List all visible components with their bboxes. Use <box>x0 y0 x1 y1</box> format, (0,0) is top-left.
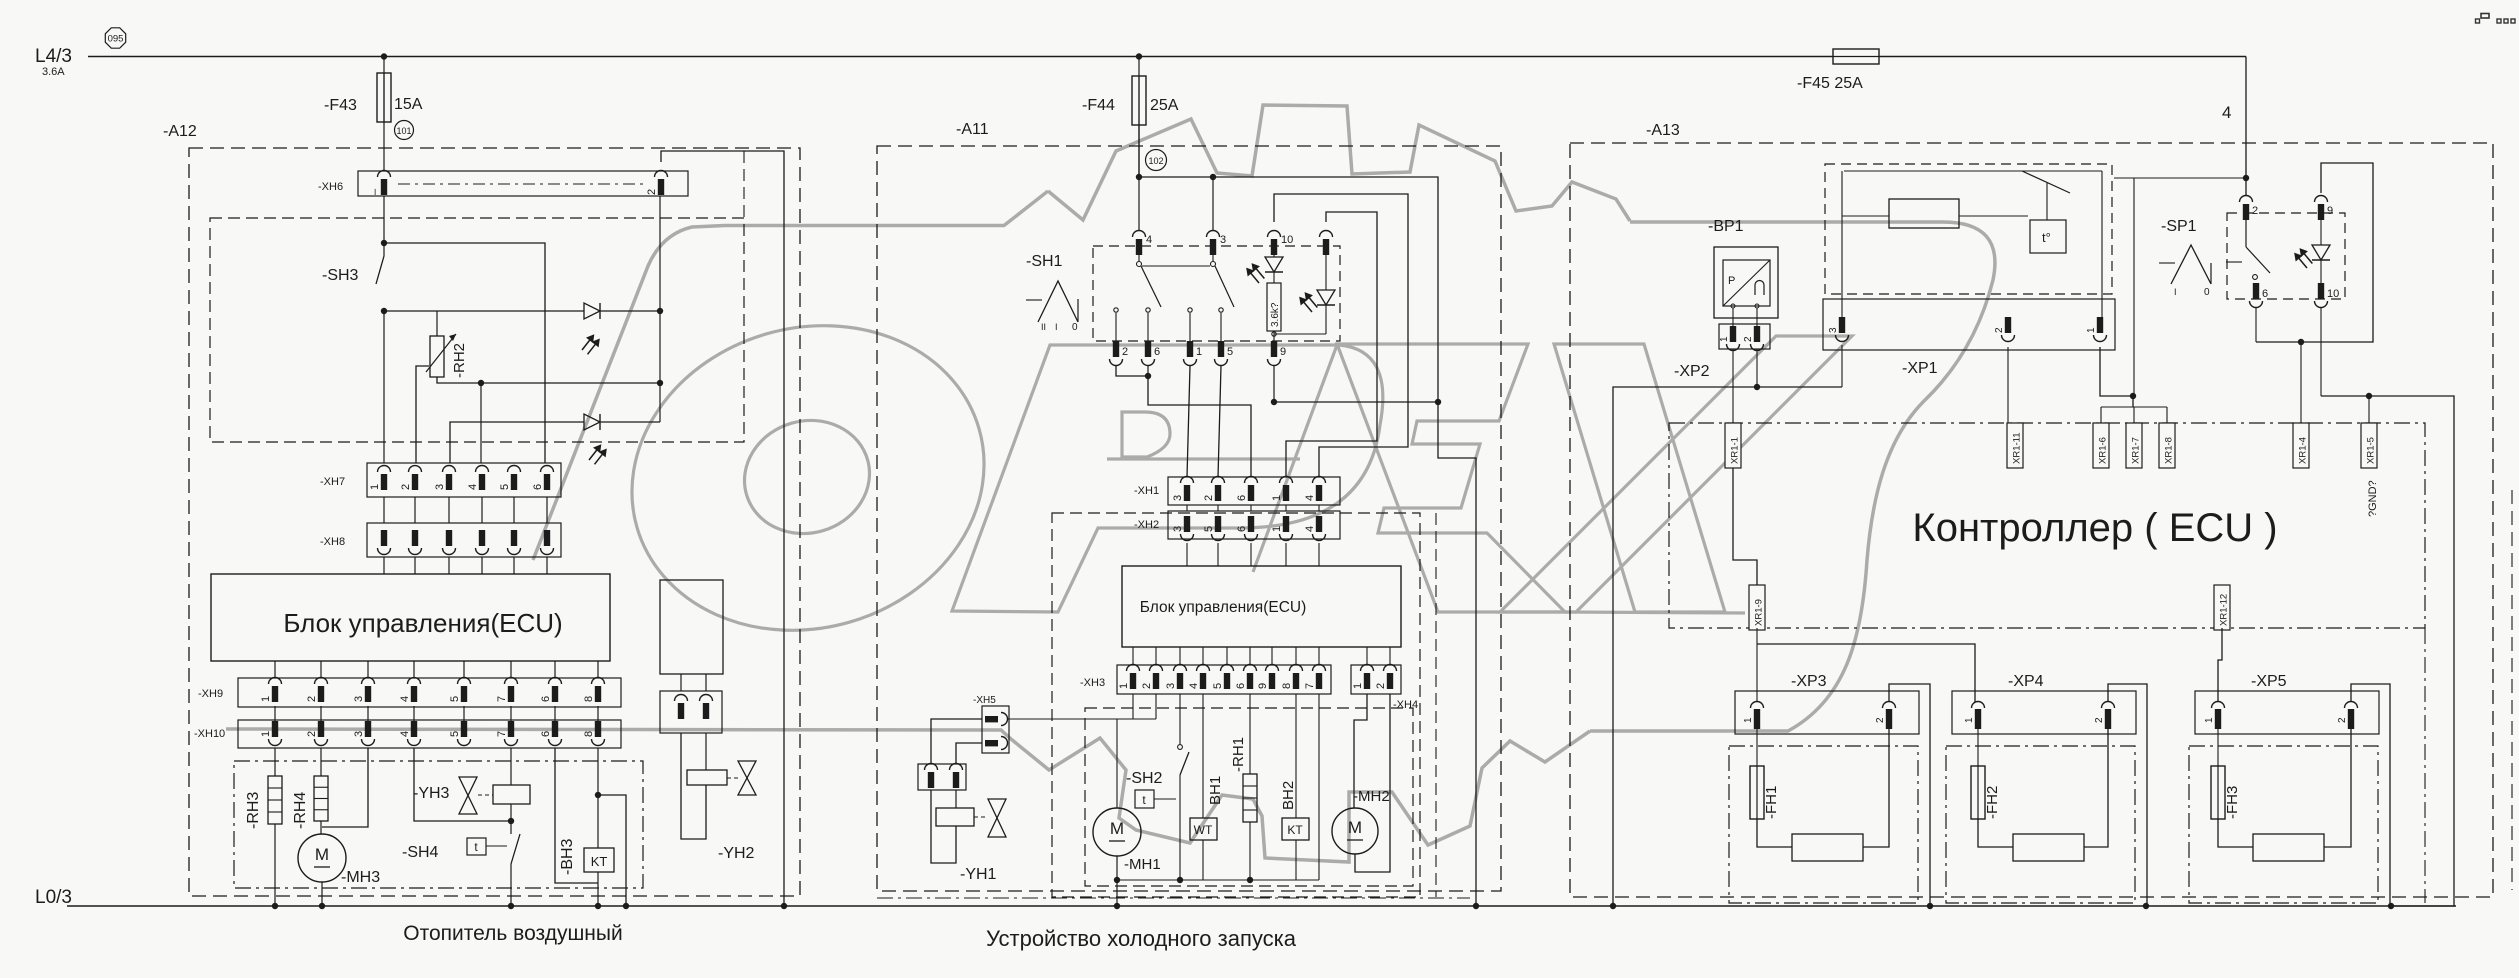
svg-text:-XH5: -XH5 <box>973 695 996 706</box>
svg-text:-XH7: -XH7 <box>320 476 345 488</box>
XH2 pin 4 <box>1316 516 1322 532</box>
SH1 pin x <box>1320 231 1333 237</box>
XH7 pin 2 <box>409 466 422 472</box>
wire XH3 pin7 <box>1318 694 1320 880</box>
svg-text:4: 4 <box>1188 683 1200 689</box>
XP1 pin 1 <box>2097 317 2103 333</box>
XH4 pin 2 <box>1384 665 1397 672</box>
XH3 pin 7 <box>1313 665 1326 672</box>
svg-text:2: 2 <box>1994 327 2005 333</box>
wire bus to SP1 (wire 4) <box>2245 57 2247 197</box>
svg-text:5: 5 <box>1212 683 1224 689</box>
svg-text:-FH2: -FH2 <box>1984 786 2001 819</box>
wire F43 to SH3 <box>383 196 385 256</box>
svg-text:-F45 25A: -F45 25A <box>1797 75 1863 92</box>
svg-text:XR1-12: XR1-12 <box>2219 594 2230 626</box>
wire XP1.1 to XR1-6/7/8 <box>2100 347 2133 407</box>
watermark swoosh lines <box>226 729 1590 862</box>
svg-text:-RH1: -RH1 <box>1230 737 1247 772</box>
svg-text:-RH4: -RH4 <box>292 792 309 829</box>
svg-text:4: 4 <box>1146 234 1152 246</box>
wires SH1 pins 2,6 join <box>1116 366 1148 376</box>
junction bus x=1613 <box>1610 903 1616 909</box>
svg-text:1: 1 <box>1196 346 1202 358</box>
LED HL1 with resistor 3.6k <box>1273 250 1275 257</box>
svg-text:-SH1: -SH1 <box>1026 253 1063 270</box>
wire RH2 bottom row <box>437 377 660 383</box>
net L4/3 top bus <box>88 56 2246 58</box>
svg-text:XR1-8: XR1-8 <box>2164 437 2175 464</box>
ECU unit dash-dot box <box>1669 423 2425 628</box>
series resistor <box>1842 215 1889 217</box>
svg-text:XR1-7: XR1-7 <box>2131 437 2142 464</box>
junction bus x=598 <box>595 903 601 909</box>
svg-text:-ВН3: -ВН3 <box>559 838 576 875</box>
XH9 pin 1 <box>269 678 282 685</box>
output box right of ECU <box>660 580 723 674</box>
svg-text:-RH2: -RH2 <box>451 343 468 378</box>
svg-text:-XH1: -XH1 <box>1134 485 1159 497</box>
svg-text:-XP5: -XP5 <box>2251 673 2287 690</box>
svg-text:6: 6 <box>540 731 552 737</box>
svg-text:1: 1 <box>1719 336 1730 342</box>
wire XR1-9 to XP3 <box>1756 628 1758 702</box>
svg-text:5: 5 <box>449 731 461 737</box>
XP2 pin 1 <box>1730 326 1736 342</box>
XH3 pin 9 <box>1266 665 1279 672</box>
svg-text:3: 3 <box>1172 526 1184 532</box>
tag XR1-7 <box>2126 423 2142 468</box>
XH1 pin 3 <box>1181 477 1194 484</box>
XH10 pin 4 <box>411 721 417 737</box>
svg-text:9: 9 <box>2327 205 2333 217</box>
connector XH7 <box>367 463 561 497</box>
svg-text:2: 2 <box>1141 683 1153 689</box>
connector -XP4 <box>1952 691 2136 734</box>
svg-text:-FH1: -FH1 <box>1763 786 1780 819</box>
svg-text:3: 3 <box>353 696 365 702</box>
svg-text:2: 2 <box>306 731 318 737</box>
svg-text:10: 10 <box>2327 288 2339 300</box>
XH10 pin 7 <box>508 721 514 737</box>
svg-text:-YH1: -YH1 <box>960 866 997 883</box>
connector -XP5 <box>2195 691 2379 734</box>
svg-text:3: 3 <box>1828 327 1839 333</box>
junction bus x=2146 <box>2143 903 2149 909</box>
svg-text:8: 8 <box>583 696 595 702</box>
svg-text:-XP2: -XP2 <box>1674 363 1710 380</box>
svg-text:15A: 15A <box>394 96 423 113</box>
wire XR1-1 to XR1-9 <box>1733 468 1757 585</box>
XH8 pin 4 <box>479 530 485 546</box>
unit dash-dot box A12 bottom <box>234 761 643 888</box>
svg-text:Устройство холодного запуска: Устройство холодного запуска <box>986 926 1297 951</box>
XH8 pin 2 <box>412 530 418 546</box>
SH1 pin 10 <box>1268 231 1281 237</box>
wires XH1-XH2, XH2-ECU <box>1186 505 1188 511</box>
heater element <box>1792 834 1863 861</box>
svg-text:4: 4 <box>1304 495 1316 501</box>
wire XP2.2 to bus <box>1756 349 1758 387</box>
svg-text:8: 8 <box>1281 683 1293 689</box>
svg-text:Контроллер ( ECU ): Контроллер ( ECU ) <box>1912 506 2277 550</box>
resistor RH4 <box>320 748 322 776</box>
svg-text:101: 101 <box>396 126 411 136</box>
SP1 contact <box>2245 214 2247 247</box>
svg-text:-YH3: -YH3 <box>413 785 450 802</box>
svg-text:XR1-6: XR1-6 <box>2098 437 2109 464</box>
svg-text:XR1-1: XR1-1 <box>1730 437 1741 464</box>
XH4 pin 1 <box>1361 665 1374 672</box>
svg-text:1: 1 <box>1743 717 1754 723</box>
XH3 pin 3 <box>1174 665 1187 672</box>
fuse -FH1 <box>1756 729 1758 766</box>
junction on bus at F43 <box>381 53 387 59</box>
junction on bus at F44 <box>1136 53 1142 59</box>
svg-text:2: 2 <box>646 189 658 195</box>
XH3 pin 8 <box>1290 665 1303 672</box>
XH9 pin 4 <box>408 678 421 684</box>
connector XH10 <box>238 720 621 748</box>
svg-text:–: – <box>369 188 381 195</box>
wire branch to XH7 pin6 <box>384 243 545 463</box>
heater element <box>2013 834 2084 861</box>
svg-text:2: 2 <box>1375 683 1387 689</box>
svg-text:2: 2 <box>2094 717 2105 723</box>
svg-text:-A13: -A13 <box>1646 122 1680 139</box>
svg-text:1: 1 <box>1271 526 1283 532</box>
XH1 pin 2 <box>1212 477 1225 484</box>
tag XR1-5 <box>2361 423 2377 468</box>
wire SH1 pin5 to XH1 <box>1218 366 1221 477</box>
svg-text:2: 2 <box>1875 717 1886 723</box>
RH2 wiper wire to XH7 pin2 <box>416 366 429 463</box>
svg-text:4: 4 <box>399 731 411 737</box>
XH10 pin 3 <box>365 721 371 737</box>
svg-text:M: M <box>1348 818 1362 837</box>
svg-text:?GND?: ?GND? <box>2367 480 2379 517</box>
XP1 pin 2 <box>2005 317 2011 333</box>
connector XH4 <box>1351 665 1401 694</box>
svg-text:Блок управления(ECU): Блок управления(ECU) <box>283 608 562 638</box>
svg-text:1: 1 <box>1352 683 1364 689</box>
connector -XP3 <box>1735 691 1919 734</box>
svg-text:-F43: -F43 <box>324 97 357 114</box>
tag XR1-12 <box>2214 585 2230 630</box>
svg-text:-SP1: -SP1 <box>2161 218 2197 235</box>
svg-text:095: 095 <box>108 34 124 45</box>
junction bus x=511 <box>508 903 514 909</box>
wires box to YH2 connector <box>680 674 682 691</box>
XH10 pin 6 <box>552 721 558 737</box>
svg-text:L4/3: L4/3 <box>35 46 72 67</box>
svg-text:-SH4: -SH4 <box>402 844 439 861</box>
tag XR1-6 <box>2093 423 2109 468</box>
svg-text:-XH10: -XH10 <box>194 728 225 740</box>
junction bus x=1476 <box>1473 903 1479 909</box>
junction bus x=275 <box>272 903 278 909</box>
watermark gear <box>533 105 1995 731</box>
svg-text:1: 1 <box>1964 717 1975 723</box>
svg-text:-XH9: -XH9 <box>198 688 223 700</box>
XH7 pin 5 <box>508 466 521 473</box>
connector of YH1 <box>918 764 966 790</box>
XH2 pin 1 <box>1283 516 1289 532</box>
net L0/3 bottom bus <box>67 905 2456 907</box>
svg-text:1: 1 <box>2204 717 2215 723</box>
node 101 marker <box>395 121 414 140</box>
wire pin10 to XR1-5 and right riser <box>2320 308 2322 396</box>
svg-text:6: 6 <box>532 484 544 490</box>
connector XH1 <box>1168 477 1340 505</box>
svg-text:4: 4 <box>1304 526 1316 532</box>
svg-text:4: 4 <box>399 696 411 702</box>
inner dashed box A12 upper <box>210 218 744 442</box>
wire SH1 pin10 top loop <box>1274 194 1408 477</box>
riser -XP4 to bus <box>2108 684 2147 906</box>
svg-text:1: 1 <box>2086 327 2097 333</box>
XH8 pin 6 <box>544 530 550 546</box>
svg-text:-XH3: -XH3 <box>1080 677 1105 689</box>
XH1 pin 4 <box>1313 477 1326 484</box>
svg-text:2: 2 <box>306 696 318 702</box>
connector XH2 <box>1168 511 1340 539</box>
XH8 pin 1 <box>381 530 387 546</box>
resistor RH3 <box>274 748 276 776</box>
connector XH9 <box>238 678 621 707</box>
solenoid valve YH2 <box>681 733 706 839</box>
svg-text:4: 4 <box>467 484 479 490</box>
svg-text:5: 5 <box>1203 526 1215 532</box>
svg-text:-MH1: -MH1 <box>1124 856 1161 873</box>
svg-text:5: 5 <box>449 696 461 702</box>
svg-text:M: M <box>1110 819 1124 838</box>
wire bottom row A11 <box>1117 879 1319 881</box>
svg-text:0: 0 <box>2204 287 2210 298</box>
svg-text:5: 5 <box>1227 346 1233 358</box>
variable resistor RH2 <box>436 311 438 336</box>
XH3 pin 4 <box>1197 665 1210 672</box>
XP2 pin 2 <box>1754 326 1760 342</box>
junction bus x=1117 <box>1114 903 1120 909</box>
connector XP1 <box>1823 299 2115 350</box>
svg-text:6: 6 <box>1236 526 1248 532</box>
upper sub box A13 <box>1825 164 2112 294</box>
ECU block A12 <box>211 574 610 661</box>
node 102 marker <box>1146 150 1167 171</box>
SP1 LED <box>2320 216 2322 245</box>
wire XH10 pin3 to MH3 <box>322 748 368 827</box>
wire to XP4 pin1 <box>1757 644 1975 702</box>
svg-text:6: 6 <box>1154 346 1160 358</box>
wire XH6 pin2 loop right side <box>661 151 784 906</box>
junction bus x=322 <box>319 903 325 909</box>
XH10 pin 5 <box>461 721 467 737</box>
XH7 pin 1 <box>378 466 391 473</box>
ECU block A11 <box>1122 566 1401 647</box>
diode VD1 <box>584 303 600 319</box>
unit box -XP4 <box>1946 746 2135 903</box>
fuse F45 25A <box>1833 49 1879 64</box>
svg-text:25A: 25A <box>1150 97 1179 114</box>
SH1 pin 3 <box>1207 231 1220 237</box>
wire SH1 pin1 to XH1 <box>1187 366 1190 477</box>
XH6 pin 2 <box>655 171 668 178</box>
XH2 pin 5 <box>1215 516 1221 532</box>
fuse -FH2 <box>1977 729 1979 766</box>
connector XH6 <box>358 171 688 196</box>
wires XH7-XH8 and to ECU <box>383 497 385 523</box>
solenoid valve YH1 <box>931 790 956 863</box>
svg-text:3.6k?: 3.6k? <box>1270 302 1281 327</box>
svg-text:3.6A: 3.6A <box>42 66 65 78</box>
fuse F44 25A with wire <box>1138 57 1140 178</box>
svg-text:-XP4: -XP4 <box>2008 673 2044 690</box>
svg-text:-XH6: -XH6 <box>318 181 343 193</box>
svg-text:2: 2 <box>2252 205 2258 217</box>
svg-text:7: 7 <box>496 731 508 737</box>
connector XH8 <box>367 523 561 557</box>
svg-text:3: 3 <box>1165 683 1177 689</box>
svg-text:XR1-11: XR1-11 <box>2012 432 2023 464</box>
riser -XP5 to bus <box>2351 684 2390 906</box>
svg-text:-A11: -A11 <box>956 121 989 138</box>
XH8 pin 5 <box>511 530 517 546</box>
wire SH1 pin9 down <box>1273 366 1275 402</box>
wire XP1.2 to XR1-11 <box>2007 347 2009 423</box>
motor MH3 <box>320 821 322 834</box>
svg-text:-XH8: -XH8 <box>320 536 345 548</box>
svg-text:3: 3 <box>434 484 446 490</box>
svg-text:II: II <box>1041 322 1046 332</box>
unit dash-dot box A11 <box>1052 513 1420 897</box>
XH3 pin 5 <box>1221 665 1234 672</box>
wires XH5 <box>931 719 982 764</box>
svg-text:-SH2: -SH2 <box>1126 770 1163 787</box>
svg-text:M: M <box>315 845 329 864</box>
page marker icons top right <box>2476 19 2480 23</box>
svg-text:Блок управления(ECU): Блок управления(ECU) <box>1140 599 1307 616</box>
junction bus x=784 <box>781 903 787 909</box>
tag XR1-4 <box>2293 423 2309 468</box>
svg-text:2: 2 <box>400 484 412 490</box>
svg-text:3: 3 <box>353 731 365 737</box>
svg-text:t°: t° <box>2042 230 2051 245</box>
svg-text:-F44: -F44 <box>1082 97 1115 114</box>
riser -XP3 to bus <box>1889 684 1930 906</box>
unit box -XP5 <box>2189 746 2378 903</box>
svg-text:1: 1 <box>1271 495 1283 501</box>
wire to XR1-4 <box>2300 342 2302 423</box>
svg-text:1: 1 <box>1118 683 1130 689</box>
tag XR1-8 <box>2159 423 2175 468</box>
temp sensor t <box>2030 220 2066 253</box>
SH1 pin 4 <box>1133 231 1146 237</box>
node 095 marker <box>105 28 125 48</box>
svg-text:-BP1: -BP1 <box>1708 218 1744 235</box>
connector XP2 <box>1732 308 1734 326</box>
XH7 pin 4 <box>476 466 489 473</box>
svg-text:XR1-5: XR1-5 <box>2366 437 2377 464</box>
svg-text:2: 2 <box>1743 336 1754 342</box>
diode VD2 <box>584 414 600 430</box>
SP1 pin 6 <box>2253 283 2259 299</box>
XH10 pin 1 <box>272 721 278 737</box>
svg-text:-A12: -A12 <box>163 123 197 140</box>
svg-text:ВН1: ВН1 <box>1207 776 1224 805</box>
tag XR1-11 <box>2007 423 2023 468</box>
SH1 contacts <box>1137 262 1142 267</box>
SP1 pin 2 <box>2240 196 2253 203</box>
svg-text:WT: WT <box>1194 823 1213 837</box>
svg-text:-YH2: -YH2 <box>718 845 755 862</box>
XH2 pin 3 <box>1184 516 1190 532</box>
svg-text:-SH3: -SH3 <box>322 267 359 284</box>
svg-text:1: 1 <box>369 484 381 490</box>
svg-text:2: 2 <box>1203 495 1215 501</box>
XH8 pin 3 <box>446 530 452 546</box>
svg-text:KT: KT <box>591 854 608 869</box>
svg-text:6: 6 <box>1235 683 1247 689</box>
svg-text:6: 6 <box>1236 495 1248 501</box>
wire F44 to SH1 and right riser <box>1138 125 1140 177</box>
XH9 pin 6 <box>549 678 562 685</box>
svg-text:5: 5 <box>499 484 511 490</box>
svg-text:P: P <box>1728 275 1735 287</box>
svg-text:ВН2: ВН2 <box>1280 781 1297 810</box>
svg-text:KT: KT <box>1287 823 1303 837</box>
XH7 pin 3 <box>443 466 456 473</box>
switch blade <box>2022 171 2070 193</box>
svg-text:1: 1 <box>260 696 272 702</box>
svg-text:-RH3: -RH3 <box>245 792 262 829</box>
wire with diode row2 <box>450 422 584 463</box>
svg-text:7: 7 <box>496 696 508 702</box>
svg-text:0: 0 <box>1072 322 1078 333</box>
LED HL2 <box>1325 250 1327 290</box>
XH3 pin 2 <box>1150 665 1163 672</box>
svg-text:-XP3: -XP3 <box>1791 673 1827 690</box>
block A11 dashed box <box>877 146 1501 891</box>
XH7 pin 6 <box>541 466 554 473</box>
XH10 pin 2 <box>318 721 324 737</box>
svg-text:1: 1 <box>260 731 272 737</box>
XH9 pin 5 <box>458 678 471 685</box>
wire XP2.1 to XR1-1 <box>1732 349 1734 423</box>
block A12 dashed box <box>189 148 800 896</box>
svg-text:6: 6 <box>540 696 552 702</box>
svg-text:2: 2 <box>2337 717 2348 723</box>
XP1 pin 3 <box>1839 317 1845 333</box>
svg-text:-XH2: -XH2 <box>1134 519 1159 531</box>
junction bus x=626 <box>623 903 629 909</box>
watermark letters OPEX <box>596 285 1852 672</box>
wires ECU to XH9, XH9 to XH10 <box>274 661 276 678</box>
SP1 pin 9 <box>2315 196 2328 203</box>
XH3 pin 1 <box>1127 665 1140 672</box>
XH1 pin 1 <box>1280 477 1293 484</box>
wire XH6 pin2 down <box>659 196 661 422</box>
connector of YH2 <box>660 691 722 733</box>
wire to SP1 riser <box>2114 177 2246 179</box>
svg-text:XR1-4: XR1-4 <box>2298 437 2309 464</box>
motor MH2 <box>1332 808 1378 854</box>
svg-text:2: 2 <box>1122 346 1128 358</box>
junction bus x=1930 <box>1927 903 1933 909</box>
svg-text:XR1-9: XR1-9 <box>1754 599 1765 626</box>
XH9 pin 7 <box>505 678 518 685</box>
wire with diode row1 <box>384 310 584 312</box>
